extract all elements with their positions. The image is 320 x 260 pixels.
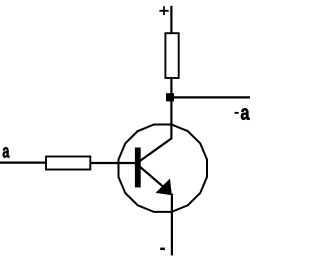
transistor Q1 body circle (16-gon) — [119, 125, 208, 212]
label a (input) — [3, 147, 10, 157]
wire R2 to transistor base — [91, 162, 136, 164]
transistor Q1 base bar — [135, 148, 141, 188]
resistor R2 (base) — [46, 157, 90, 170]
emitter arrowhead — [156, 179, 171, 194]
collector diagonal — [140, 138, 172, 161]
wire input a to base — [0, 162, 46, 164]
label -a (output) — [235, 108, 250, 119]
emitter vertical wire — [171, 194, 173, 256]
resistor R1 (collector load) — [165, 33, 178, 78]
emitter diagonal — [140, 167, 168, 191]
node (collector/output junction) — [166, 93, 174, 101]
label + (positive supply) — [159, 6, 168, 15]
wire R1 to collector elbow — [170, 79, 172, 139]
wire V+ to resistor R1 — [170, 6, 172, 34]
label - (negative supply) — [160, 248, 165, 251]
wire output to right edge — [174, 96, 250, 98]
